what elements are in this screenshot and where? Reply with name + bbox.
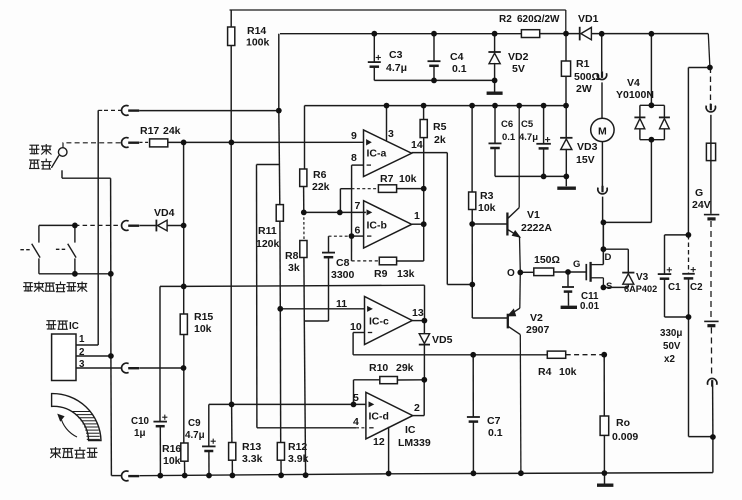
resistor R5 and pullup column (420, 106, 427, 261)
resistor R17 (150, 139, 168, 147)
svg-text:14: 14 (411, 139, 423, 151)
capacitor C8 (304, 236, 335, 321)
svg-text:0.01: 0.01 (580, 301, 600, 312)
wire speed feedback to IC-c output (160, 285, 425, 320)
svg-text:V4: V4 (627, 77, 640, 89)
wire C1C2 bottom join (665, 317, 689, 437)
wire IC-d pin5 node (209, 403, 366, 405)
svg-text:24k: 24k (163, 125, 181, 137)
wire to R7 (352, 188, 379, 190)
svg-text:R16: R16 (162, 443, 181, 455)
svg-text:R17: R17 (140, 125, 159, 137)
wire C10 top (159, 286, 161, 421)
wire pin8 link to pin7 (340, 189, 351, 213)
connector battery plus (706, 104, 715, 112)
svg-text:620Ω/2W: 620Ω/2W (517, 14, 560, 25)
wire C2 top branch (688, 235, 690, 273)
label C10 1u (131, 416, 150, 439)
labels IC-d pins 5 4 2 12 (353, 392, 420, 448)
svg-text:IC: IC (69, 321, 79, 332)
svg-text:8: 8 (351, 152, 357, 164)
label huoer IC (46, 321, 79, 332)
svg-text:1μ: 1μ (134, 428, 145, 439)
resistor R12 (277, 309, 284, 476)
wire IC-b output (412, 223, 424, 225)
wire C1 top branch (665, 235, 689, 274)
resistor R6 (300, 169, 307, 187)
fuse FU (706, 143, 715, 160)
svg-text:4.7μ: 4.7μ (519, 132, 538, 143)
svg-text:VD3: VD3 (577, 141, 598, 153)
svg-text:V2: V2 (530, 312, 543, 324)
svg-text:C10: C10 (131, 416, 150, 427)
svg-text:3300: 3300 (331, 269, 355, 281)
diode VD4 (156, 220, 167, 232)
wire R3 node to V1 base (472, 223, 507, 225)
resistor R10 (380, 377, 398, 384)
svg-text:Y0100N: Y0100N (616, 89, 654, 101)
wire R15 to R16 (183, 335, 185, 444)
connector hall signal (122, 363, 140, 373)
label IC LM339 (398, 424, 431, 449)
svg-text:R11: R11 (258, 225, 277, 237)
wire feedback column to pin4 (256, 165, 258, 428)
svg-text:R1: R1 (576, 58, 590, 70)
dial arrow (57, 414, 77, 437)
svg-text:V1: V1 (527, 209, 540, 221)
wire brake bottom (39, 273, 111, 275)
svg-text:C5: C5 (521, 119, 534, 130)
label R1 500ohm 2W (574, 58, 600, 95)
connector brake VD4 (122, 221, 140, 231)
svg-text:R2: R2 (499, 14, 512, 25)
svg-text:3: 3 (388, 128, 394, 140)
label R7 10k (380, 173, 417, 185)
resistor R2 (521, 30, 539, 38)
svg-text:C1: C1 (668, 282, 681, 293)
label R16 10k (162, 443, 181, 467)
motor M (591, 118, 614, 141)
svg-text:6AP402: 6AP402 (624, 284, 657, 294)
capacitor C11 and ground (561, 272, 577, 307)
svg-text:1: 1 (79, 334, 85, 345)
resistor R3 and column (469, 106, 476, 318)
label R11 120k (256, 225, 280, 250)
wire R6 to pin7 (303, 187, 305, 213)
svg-text:2W: 2W (576, 83, 592, 95)
capacitor C3 (368, 34, 381, 81)
labels hall pins 1 2 3 (79, 334, 85, 370)
wire IC pin3 supply (386, 106, 388, 141)
label R2 6200/2W (499, 14, 560, 25)
wire pin2 column (110, 178, 113, 475)
dial hall speed control (52, 394, 101, 441)
switch cruise (xian-su xun-xing) (51, 143, 121, 168)
label R8 3k (285, 250, 300, 274)
svg-text:10k: 10k (399, 173, 417, 185)
capacitor C4 (428, 34, 441, 81)
wire fuse to battery cell (710, 161, 712, 214)
labels D S (605, 252, 613, 292)
wire connector to R15R16 node (140, 367, 184, 369)
svg-text:M: M (598, 125, 607, 137)
wire ground rail left stub (111, 475, 121, 477)
resistor Ro (600, 355, 609, 473)
marks IC-a inputs (367, 140, 371, 165)
svg-text:G: G (573, 259, 580, 270)
svg-text:10k: 10k (194, 323, 212, 335)
svg-text:R12: R12 (288, 441, 307, 453)
svg-text:R15: R15 (194, 311, 213, 323)
svg-text:0.1: 0.1 (488, 427, 503, 439)
wire connector to motor (601, 82, 603, 118)
svg-text:120k: 120k (256, 238, 280, 250)
svg-text:24V: 24V (692, 199, 711, 211)
wire brake top (39, 224, 122, 226)
svg-text:13: 13 (412, 307, 424, 319)
wire battery column upper (710, 68, 712, 105)
wire battery minus to ground rail (712, 386, 714, 473)
svg-text:13k: 13k (397, 268, 415, 280)
wire R11 to pin11 node (279, 221, 281, 309)
switch brake left (20, 225, 40, 273)
wire IC-d pin4 (257, 427, 366, 429)
svg-text:x2: x2 (664, 354, 675, 365)
label G 24V (692, 187, 711, 211)
wire hall pin3 (76, 367, 122, 369)
svg-text:R8: R8 (285, 250, 299, 262)
svg-text:IC-b: IC-b (367, 220, 387, 232)
hall IC box (52, 334, 76, 381)
wire to V2 base (472, 317, 507, 319)
label Ro 0.009 (612, 417, 638, 443)
op-amp IC-c (365, 297, 413, 345)
wire connector to fuse (710, 115, 712, 143)
svg-text:VD1: VD1 (578, 13, 599, 25)
svg-text:LM339: LM339 (398, 437, 431, 449)
resistor R15 (180, 314, 187, 335)
label VD1 (578, 13, 599, 25)
labels IC-b pins 7 6 1 (355, 200, 421, 237)
svg-text:150Ω: 150Ω (534, 254, 560, 266)
svg-text:R13: R13 (242, 441, 261, 453)
transistor V2 (508, 273, 521, 474)
labels IC-a pins 9 8 3 14 (351, 128, 423, 164)
svg-text:Ro: Ro (616, 417, 630, 429)
label C6 0.1 (501, 119, 516, 143)
label R6 22k (312, 169, 330, 193)
label V4 Y0100N (616, 77, 654, 101)
svg-text:10k: 10k (163, 455, 181, 467)
zener diode VD2 (488, 34, 500, 81)
wire ground rail (140, 473, 713, 476)
label gate G (573, 259, 580, 270)
svg-text:IC-c: IC-c (369, 316, 389, 328)
resistor R7 (378, 185, 396, 193)
wire battery plus to C1C2 branch (688, 67, 710, 69)
label R14 100k (246, 25, 270, 49)
connector ground rail (122, 471, 140, 481)
resistor R13 (229, 404, 236, 475)
wire R2 to VD1 (540, 33, 580, 35)
svg-text:R14: R14 (247, 25, 266, 37)
capacitor C6 (489, 106, 502, 177)
capacitor C10 (153, 415, 167, 476)
svg-text:6: 6 (355, 225, 361, 237)
label VD2 5V (508, 51, 529, 75)
zener diode VD3 (560, 106, 572, 177)
ground main (597, 473, 613, 485)
capacitor C5 (536, 106, 551, 177)
mosfet V3 (switch) (586, 222, 603, 287)
label C4 0.1 (450, 51, 467, 75)
wire battery plus down to C1C2 (687, 68, 689, 235)
diode VD5 (419, 321, 430, 380)
wire R17 node down to VD4 (183, 142, 185, 225)
wire IC-a output to R3 node (412, 153, 473, 285)
wire hall pin1 (76, 344, 98, 346)
resistor 150ohm (534, 268, 554, 276)
marks IC-c inputs (368, 307, 373, 333)
wire cruise lever to pin2 column (62, 170, 111, 178)
op-amp IC-b (364, 201, 412, 248)
svg-text:IC-d: IC-d (369, 411, 389, 423)
wire R14 column down to R13 (230, 46, 232, 405)
wire R10 right (397, 379, 424, 381)
svg-text:100k: 100k (246, 37, 270, 49)
svg-text:C7: C7 (487, 415, 501, 427)
svg-text:V3: V3 (636, 272, 649, 283)
wire rail corner down to R6 (304, 106, 306, 169)
svg-text:3k: 3k (288, 262, 300, 274)
capacitor C9 (202, 404, 216, 475)
transistor V1 (507, 106, 520, 273)
svg-text:1: 1 (414, 210, 420, 222)
label huoer tiaosu (50, 447, 98, 458)
label C3 4.7u (386, 49, 407, 74)
diode V3 6AP402 (603, 249, 634, 287)
svg-text:50V: 50V (663, 341, 681, 352)
svg-text:500Ω: 500Ω (574, 71, 600, 83)
label R5 2k (433, 121, 447, 146)
svg-text:G: G (695, 187, 703, 199)
wire to hall supply connector (98, 109, 121, 111)
svg-text:C6: C6 (501, 119, 513, 130)
svg-text:VD2: VD2 (508, 51, 529, 63)
label V3 6AP402 (624, 272, 657, 294)
connector motor plus (597, 71, 606, 79)
wire R16 to ground rail (184, 461, 186, 475)
wire connector to R17 (140, 141, 150, 143)
resistor R1 (561, 34, 570, 106)
resistor R9 (379, 257, 396, 265)
wire VD1 node to motor connector (601, 34, 603, 72)
svg-text:C3: C3 (389, 49, 403, 61)
wire top supply from R14 to VD1 node (230, 10, 566, 34)
wire 150ohm to gate (554, 271, 587, 273)
battery cell 2 (704, 321, 718, 325)
wire R4 to source node (566, 354, 605, 356)
resistor R8 (300, 241, 307, 258)
wire R9 to pullup column (397, 260, 424, 262)
svg-text:330μ: 330μ (660, 328, 682, 339)
resistor R4 (547, 351, 565, 358)
svg-text:2222A: 2222A (521, 222, 552, 234)
wire 15V rail (305, 105, 567, 107)
svg-text:R5: R5 (433, 121, 447, 133)
svg-text:10k: 10k (559, 366, 577, 378)
wire VD4 to R15 column (167, 225, 183, 227)
svg-text:7: 7 (355, 200, 361, 212)
svg-text:4.7μ: 4.7μ (185, 430, 205, 441)
svg-text:2907: 2907 (526, 324, 550, 336)
battery cell 1 (704, 215, 719, 219)
label R17 24k (140, 125, 181, 137)
svg-text:10k: 10k (478, 202, 496, 214)
wire C2 bottom to battery minus (689, 436, 713, 438)
svg-text:C9: C9 (188, 418, 201, 429)
label R13 3.3k (242, 441, 263, 465)
svg-text:R3: R3 (480, 190, 494, 202)
svg-text:0.1: 0.1 (502, 132, 516, 143)
svg-text:9: 9 (351, 130, 357, 142)
wire hall pin2 (76, 355, 111, 357)
svg-text:5V: 5V (512, 63, 525, 75)
svg-text:22k: 22k (312, 181, 330, 193)
wire motor to MOSFET drain (602, 197, 605, 265)
wire pin6 to C8 (329, 235, 364, 237)
switch brake right (56, 225, 76, 273)
wire IC-c pin11 (280, 308, 364, 310)
node O (507, 268, 534, 279)
svg-text:2: 2 (414, 402, 420, 414)
wire R11 top tap (257, 164, 280, 166)
wire motor to lower connector (601, 142, 603, 187)
wire IC-d output (413, 380, 425, 416)
svg-text:C4: C4 (450, 51, 464, 63)
diode VD1 (580, 27, 592, 41)
svg-text:O: O (507, 268, 515, 279)
marks IC-b inputs (367, 210, 371, 236)
wire V4 bottom to motor-drain node (603, 140, 651, 223)
label R3 10k (478, 190, 496, 214)
svg-text:VD4: VD4 (154, 207, 175, 219)
wire pin10 down (353, 333, 364, 355)
wire C6/C5 ground link (495, 175, 566, 177)
svg-text:0.1: 0.1 (452, 63, 467, 75)
wire VD4 node to R15 (183, 226, 185, 315)
resistor R11 (276, 205, 283, 222)
capacitor C2 (682, 267, 696, 317)
label C11 0.01 (580, 291, 600, 312)
wire IC pin12 ground (388, 427, 390, 474)
capacitor C1 (658, 267, 672, 317)
connector motor minus (598, 186, 607, 194)
label 150ohm (534, 254, 560, 266)
label VD3 15V (576, 141, 598, 166)
connector hall supply (122, 106, 140, 116)
wire hall pin1 column (97, 110, 99, 345)
svg-text:29k: 29k (396, 362, 414, 374)
label R15 10k (194, 311, 213, 335)
wire pin10 to R4 (353, 354, 547, 356)
wire C3/C4/VD2 bottom (374, 79, 494, 81)
wire to V4 top (650, 34, 652, 106)
wire R17 to pin 9 (168, 141, 364, 143)
wire IC-b pin7 (304, 211, 366, 213)
thyristor module V4 (634, 105, 670, 139)
wire pin8 column (352, 165, 364, 261)
svg-text:3.3k: 3.3k (242, 453, 263, 465)
svg-text:IC-a: IC-a (367, 148, 387, 160)
connector battery minus (708, 378, 717, 386)
op-amp IC-d (366, 392, 413, 439)
svg-text:11: 11 (336, 298, 347, 310)
svg-text:D: D (605, 252, 612, 263)
wire R7 to pullup column (397, 188, 424, 190)
label 330u 50V x2 (660, 328, 682, 365)
label C1 C2 (668, 282, 703, 293)
label R4 10k (538, 366, 577, 378)
svg-text:VD5: VD5 (432, 334, 453, 346)
svg-text:R4: R4 (538, 366, 552, 378)
label C7 0.1 (487, 415, 503, 439)
wire VD1 to battery branch (592, 34, 710, 68)
svg-text:S: S (606, 281, 612, 292)
wire IC-c output (412, 320, 424, 322)
label VD4 (154, 207, 175, 219)
wire pin7 to R8 (303, 212, 305, 240)
marks IC-d inputs (369, 402, 374, 428)
label zuoyou shaba anniu (23, 282, 87, 292)
svg-text:R9: R9 (374, 268, 388, 280)
svg-text:4.7μ: 4.7μ (386, 62, 407, 74)
svg-text:4: 4 (353, 416, 359, 428)
svg-text:2k: 2k (434, 134, 446, 146)
svg-text:C8: C8 (336, 257, 350, 269)
ground below VD2 (487, 80, 503, 93)
wire connector to VD4 (140, 225, 156, 227)
label V1 2222A (521, 209, 552, 234)
label R12 3.9k (288, 441, 309, 465)
svg-text:IC: IC (405, 424, 416, 436)
wire R10 left (354, 380, 380, 405)
label R9 13k (374, 268, 415, 280)
resistor R16 (181, 443, 188, 461)
ground below VD3 (557, 176, 576, 188)
wire connector to 5V corner (139, 110, 279, 112)
wire R8 to C8 node (303, 258, 305, 322)
label xiansu xunxing (29, 144, 52, 169)
svg-text:12: 12 (373, 436, 385, 448)
labels IC-c pins 11 10 13 (336, 298, 424, 333)
label C5 4.7u (519, 119, 538, 143)
wire 5V corner column upper (279, 34, 280, 205)
label VD5 (432, 334, 453, 346)
svg-text:R6: R6 (313, 169, 327, 181)
svg-text:R7: R7 (380, 173, 394, 185)
connector cruise R17 (122, 138, 140, 148)
wire R8 bottom to ground rail (304, 321, 305, 475)
label C9 4.7u (185, 418, 205, 441)
label V2 2907 (526, 312, 550, 336)
wire battery mid (710, 221, 712, 320)
resistor R14 (228, 10, 235, 46)
wire 5V bus y=34 left of R2 (280, 33, 521, 35)
wire battery lower (710, 328, 712, 374)
svg-text:10: 10 (350, 321, 362, 333)
op-amp IC-a (364, 130, 412, 177)
